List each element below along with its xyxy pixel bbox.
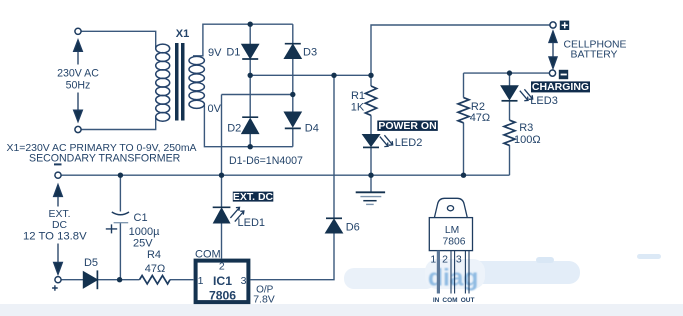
svg-text:D6: D6: [346, 222, 360, 234]
svg-text:9V: 9V: [208, 47, 222, 59]
svg-text:IC1: IC1: [213, 274, 232, 288]
svg-text:12 TO 13.8V: 12 TO 13.8V: [23, 231, 87, 243]
svg-text:2: 2: [219, 261, 225, 273]
svg-text:0V: 0V: [208, 103, 222, 115]
svg-text:OUT: OUT: [461, 297, 475, 304]
svg-text:47Ω: 47Ω: [145, 263, 165, 275]
svg-text:POWER ON: POWER ON: [378, 120, 436, 132]
svg-text:7806: 7806: [443, 236, 466, 247]
svg-text:COM: COM: [195, 249, 221, 261]
svg-text:3: 3: [241, 275, 247, 287]
svg-text:230V AC: 230V AC: [57, 67, 99, 79]
svg-text:EXT. DC: EXT. DC: [233, 191, 274, 203]
svg-text:LED3: LED3: [530, 95, 558, 107]
svg-text:1: 1: [198, 275, 204, 287]
svg-text:C1: C1: [134, 212, 148, 224]
svg-text:100Ω: 100Ω: [514, 134, 541, 146]
svg-text:50Hz: 50Hz: [66, 79, 91, 91]
svg-text:D5: D5: [84, 257, 98, 269]
svg-text:1000µ: 1000µ: [129, 226, 160, 238]
svg-text:D1: D1: [226, 46, 240, 58]
svg-text:EXT.: EXT.: [49, 209, 71, 220]
svg-text:COM: COM: [442, 297, 457, 304]
svg-text:7806: 7806: [209, 289, 236, 303]
svg-text:LED2: LED2: [395, 137, 423, 149]
svg-text:D3: D3: [303, 46, 317, 58]
svg-text:R1: R1: [351, 90, 365, 102]
svg-text:BATTERY: BATTERY: [571, 50, 618, 61]
svg-text:47Ω: 47Ω: [470, 112, 490, 124]
svg-text:R4: R4: [147, 249, 161, 261]
svg-text:D2: D2: [227, 123, 241, 135]
svg-text:DC: DC: [52, 220, 68, 231]
svg-text:25V: 25V: [133, 238, 153, 250]
svg-text:D4: D4: [305, 123, 319, 135]
svg-text:R3: R3: [519, 122, 533, 134]
svg-text:7.8V: 7.8V: [253, 294, 275, 306]
svg-text:D1-D6=1N4007: D1-D6=1N4007: [229, 155, 303, 167]
svg-text:diag: diag: [428, 265, 478, 292]
svg-text:IN: IN: [433, 297, 440, 304]
svg-text:CHARGING: CHARGING: [532, 81, 589, 93]
svg-text:2: 2: [442, 254, 448, 266]
svg-text:1: 1: [430, 254, 436, 266]
svg-text:1K: 1K: [351, 102, 365, 114]
svg-text:X1: X1: [176, 28, 189, 40]
svg-text:SECONDARY TRANSFORMER: SECONDARY TRANSFORMER: [29, 153, 181, 165]
svg-text:3: 3: [456, 254, 462, 266]
svg-text:LED1: LED1: [238, 217, 266, 229]
svg-text:LM: LM: [445, 225, 459, 236]
